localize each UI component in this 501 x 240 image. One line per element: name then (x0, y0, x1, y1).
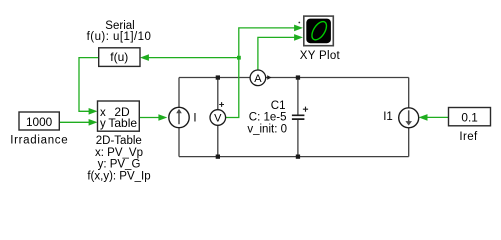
svg-text:f(x,y): PV_Ip: f(x,y): PV_Ip (87, 170, 150, 182)
svg-text:1000: 1000 (26, 115, 53, 129)
svg-text:x: x (100, 107, 106, 119)
svg-text:Serial: Serial (105, 20, 134, 32)
svg-text:Irradiance: Irradiance (10, 134, 68, 146)
svg-text:I1: I1 (383, 111, 393, 123)
svg-text:f(u): f(u) (110, 50, 128, 64)
svg-text:I: I (193, 113, 196, 125)
svg-text:Table: Table (108, 116, 137, 130)
svg-text:x: PV_Vp: x: PV_Vp (95, 147, 143, 159)
svg-text:XY Plot: XY Plot (300, 50, 341, 62)
svg-text:C: 1e-5: C: 1e-5 (249, 112, 287, 124)
svg-text:V: V (214, 113, 222, 125)
svg-text:y: y (100, 118, 106, 130)
svg-text:y: PV_G: y: PV_G (98, 159, 141, 171)
svg-text:0.1: 0.1 (461, 111, 477, 125)
svg-text:C1: C1 (271, 100, 286, 112)
svg-text:2D-Table: 2D-Table (96, 135, 142, 147)
svg-text:Iref: Iref (459, 131, 478, 143)
svg-text:f(u): u[1]/10: f(u): u[1]/10 (87, 31, 152, 43)
svg-text:A: A (254, 73, 262, 85)
svg-text:v_init: 0: v_init: 0 (247, 123, 287, 135)
